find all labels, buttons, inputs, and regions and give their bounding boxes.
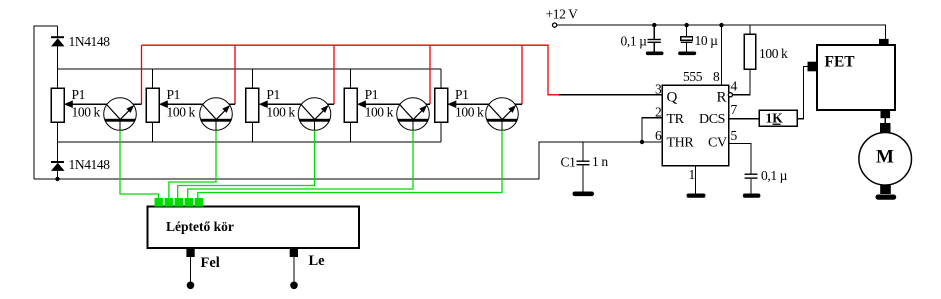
transistor T2 — [200, 98, 233, 131]
capacitor C1 1n — [561, 142, 609, 192]
wire green base T4 to stepper — [188, 130, 413, 199]
node Fel terminal — [186, 249, 219, 289]
svg-text:0,1 µ: 0,1 µ — [761, 168, 788, 183]
svg-text:100 k: 100 k — [167, 105, 196, 120]
svg-text:555: 555 — [683, 69, 703, 84]
wire red drop stage 1 — [141, 45, 143, 104]
wire red drop stage 3 — [333, 45, 335, 104]
svg-text:5: 5 — [731, 128, 738, 143]
svg-text:FET: FET — [825, 53, 856, 70]
node green terminal 1 — [155, 198, 163, 207]
transistor T4 — [397, 98, 430, 131]
wire emitter stub stage 3 — [328, 103, 335, 105]
node +12V terminal — [546, 7, 579, 28]
wire pin1 to ground — [689, 166, 696, 194]
potentiometer P1 (stage 3) — [246, 69, 302, 142]
node junction D2 anode — [55, 177, 59, 181]
node FET source terminal — [881, 110, 891, 118]
wire output Q line — [559, 94, 662, 96]
svg-text:4: 4 — [731, 79, 738, 94]
svg-text:10 µ: 10 µ — [695, 33, 719, 48]
ground bar pin1 — [687, 194, 706, 198]
svg-text:100 k: 100 k — [455, 105, 484, 120]
wire pin7 DCS to 1K — [729, 118, 760, 120]
svg-text:M: M — [876, 147, 894, 168]
wire green base T5 to stepper — [198, 130, 502, 199]
svg-text:1N4148: 1N4148 — [69, 34, 111, 49]
wire pin8 supply drop — [721, 25, 723, 85]
svg-text:P1: P1 — [365, 87, 378, 102]
capacitor 10u electrolytic — [681, 25, 718, 51]
ground bar motor — [876, 195, 897, 200]
wire green base T3 to stepper — [178, 130, 315, 199]
svg-text:P1: P1 — [72, 87, 85, 102]
svg-text:8: 8 — [713, 69, 720, 84]
svg-text:1 n: 1 n — [592, 154, 608, 169]
svg-text:THR: THR — [667, 136, 695, 151]
node green terminal 4 — [185, 198, 193, 207]
transistor T3 — [298, 98, 331, 131]
svg-text:1K: 1K — [766, 111, 784, 126]
wire pin2 TR jog — [642, 118, 662, 142]
motor M — [859, 133, 912, 186]
potentiometer P1 (stage 4) — [344, 69, 400, 142]
node green terminal 2 — [165, 198, 173, 207]
svg-text:1: 1 — [689, 167, 695, 182]
capacitor 0,1u decoupling — [621, 25, 661, 51]
wire ground rail to THR — [34, 142, 662, 179]
wire 1K to FET gate — [797, 67, 808, 119]
resistor 100k — [744, 25, 788, 69]
diode D2 1N4148 — [51, 142, 110, 179]
potentiometer P1 (stage 5) — [435, 69, 490, 142]
node green terminal 5 — [195, 198, 203, 207]
svg-text:TR: TR — [667, 112, 685, 127]
svg-text:6: 6 — [655, 128, 662, 143]
svg-text:100 k: 100 k — [72, 105, 101, 120]
node junction 10u — [684, 23, 688, 27]
svg-text:Le: Le — [309, 253, 326, 269]
resistor block 1K — [759, 110, 797, 126]
svg-text:Léptető kör: Léptető kör — [166, 219, 234, 234]
wire red drop stage 2 — [234, 45, 236, 104]
wire emitter stub stage 5 — [515, 103, 522, 105]
svg-text:R: R — [717, 89, 727, 105]
wire green base T2 to stepper — [169, 130, 216, 199]
svg-text:Fel: Fel — [201, 255, 220, 271]
ground bar 10u — [678, 52, 696, 56]
wire FET to motor — [884, 118, 886, 123]
wire +12V supply line — [557, 25, 886, 39]
svg-text:+12 V: +12 V — [546, 7, 579, 22]
wire pin5 CV to cap — [729, 144, 752, 174]
capacitor CV 0,1u — [745, 168, 788, 194]
wire red drop stage 4 — [429, 45, 431, 104]
svg-text:0,1 µ: 0,1 µ — [621, 34, 648, 49]
wire emitter stub stage 2 — [229, 103, 235, 105]
node motor bottom terminal — [880, 185, 891, 194]
diode D1 1N4148 — [51, 26, 110, 69]
potentiometer P1 (stage 1) — [51, 69, 107, 142]
node Le terminal — [290, 249, 325, 289]
svg-text:P1: P1 — [266, 87, 279, 102]
node FET drain terminal — [879, 39, 889, 46]
svg-text:3: 3 — [655, 82, 662, 97]
svg-text:7: 7 — [731, 102, 738, 117]
svg-text:C1: C1 — [561, 155, 576, 170]
ground bar C1 — [573, 192, 595, 197]
svg-text:P1: P1 — [455, 87, 468, 102]
ground bar CV cap — [743, 194, 761, 198]
node motor top terminal — [880, 123, 891, 133]
wire pot bottom rail — [58, 141, 442, 143]
svg-text:DCS: DCS — [699, 112, 725, 127]
svg-text:100 k: 100 k — [365, 105, 394, 120]
node green terminal 3 — [175, 198, 183, 207]
potentiometer P1 (stage 2) — [146, 69, 203, 142]
svg-text:CV: CV — [708, 136, 727, 151]
node FET gate terminal — [808, 62, 818, 72]
stepper circuit block Leptato kor — [147, 207, 359, 248]
timer IC U1 555 — [655, 69, 738, 166]
wire red drop stage 5 — [521, 45, 523, 104]
svg-text:Q: Q — [667, 89, 678, 105]
FET block — [817, 45, 895, 110]
svg-text:1N4148: 1N4148 — [69, 157, 111, 172]
pin 4 bubble and wire — [728, 69, 750, 97]
ground bar 0,1u — [646, 52, 664, 56]
wire emitter stub stage 4 — [426, 103, 430, 105]
node junction 0,1u — [652, 23, 656, 27]
wire pot top rail — [58, 68, 442, 70]
svg-text:100 k: 100 k — [266, 105, 295, 120]
wire emitter stub stage 1 — [133, 103, 142, 105]
node junction TR-THR — [640, 140, 644, 144]
transistor T1 — [104, 98, 137, 131]
transistor T5 — [486, 98, 519, 131]
wire green base T1 to stepper — [120, 130, 158, 199]
svg-text:P1: P1 — [167, 87, 180, 102]
svg-text:100 k: 100 k — [759, 46, 788, 61]
wire red supply rail — [142, 45, 560, 95]
node junction pin8 — [719, 23, 723, 27]
wire left rail — [34, 26, 58, 179]
